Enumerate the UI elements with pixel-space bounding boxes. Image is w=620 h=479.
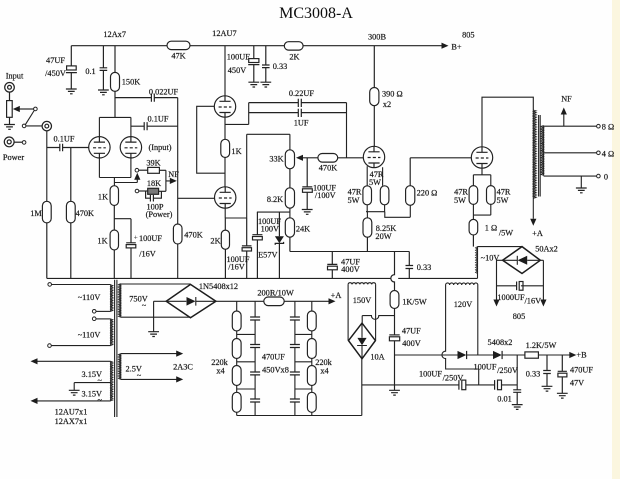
svg-text:(Input): (Input)	[148, 143, 171, 152]
svg-text:0.01: 0.01	[497, 395, 512, 404]
svg-text:0.33: 0.33	[417, 263, 432, 272]
resistor 1K (12AX7 cathode upper)	[110, 186, 118, 230]
svg-text:12AU7x1: 12AU7x1	[55, 408, 88, 417]
svg-text:400V: 400V	[341, 265, 359, 274]
wire SRPP grid bracket	[197, 106, 225, 173]
svg-text:400V: 400V	[402, 339, 420, 348]
resistor 470K (300B grid)	[318, 154, 363, 163]
svg-text:470UF: 470UF	[570, 365, 593, 374]
tube 12AX7 left triode	[89, 137, 110, 158]
connector jack to grid	[42, 121, 51, 130]
wire SRPP cathode chain	[225, 103, 249, 218]
node NF terminal upper	[135, 168, 139, 172]
svg-text:(Power): (Power)	[146, 210, 173, 219]
svg-text:33K: 33K	[269, 155, 283, 164]
wire main ground rail	[47, 277, 478, 279]
svg-text:~: ~	[142, 301, 147, 310]
svg-text:1M: 1M	[30, 209, 42, 218]
svg-text:200R/10W: 200R/10W	[257, 288, 294, 297]
capacitor 0.33 (driver supply)	[262, 46, 270, 82]
node NF terminal lower	[135, 189, 139, 193]
resistor 2K (driver cathode)	[221, 218, 229, 278]
svg-text:MC3008-A: MC3008-A	[279, 5, 353, 22]
svg-text:5W: 5W	[369, 178, 381, 187]
svg-text:NF: NF	[561, 95, 572, 104]
ground (470UF/47V)	[557, 393, 568, 398]
resistor 18K	[139, 188, 166, 194]
connector input jack	[5, 83, 15, 101]
svg-text:/16V: /16V	[228, 263, 245, 272]
winding 120V	[442, 283, 479, 385]
ground (0 tap)	[576, 188, 587, 193]
potentiometer volume	[7, 101, 34, 125]
svg-text:390 Ω: 390 Ω	[382, 90, 403, 99]
capacitor 0.1	[100, 46, 108, 90]
node mains terminal 1	[48, 283, 52, 287]
svg-text:5W: 5W	[454, 196, 466, 205]
svg-text:5W: 5W	[497, 196, 509, 205]
svg-text:5408x2: 5408x2	[488, 338, 513, 347]
svg-text:20W: 20W	[375, 232, 391, 241]
svg-text:18K: 18K	[147, 179, 161, 188]
capacitor 47UF/400V (bias supply)	[389, 335, 399, 390]
capacitor 0.1UF (input coupling)	[47, 144, 89, 152]
wire lower doubler line	[466, 355, 517, 390]
winding 150V	[348, 283, 376, 341]
svg-text:0.33: 0.33	[526, 370, 541, 379]
winding 3.15V heaters	[37, 361, 113, 401]
svg-text:100UF: 100UF	[227, 53, 250, 62]
svg-text:450Vx8: 450Vx8	[262, 365, 289, 374]
ground (0.1)	[98, 90, 109, 95]
svg-text:+B: +B	[576, 351, 587, 360]
transformer PT core	[115, 280, 117, 417]
wire 805 plate to OPT	[482, 97, 533, 147]
resistor 1.2K/5W	[525, 352, 539, 358]
svg-text:470K: 470K	[184, 230, 202, 239]
resistor 47R 5W (805 left)	[469, 186, 478, 205]
wire 12AX7 plate/cathode frame	[99, 117, 130, 185]
wire bridge negative to ground	[154, 301, 167, 331]
svg-text:/250V: /250V	[497, 366, 518, 375]
wire 150V DC+ line with hop	[362, 316, 394, 324]
svg-text:100UF: 100UF	[139, 234, 162, 243]
svg-text:2K: 2K	[289, 53, 299, 62]
tube 12AX7 right triode	[120, 137, 141, 158]
ground (100UF/450V)	[248, 82, 259, 87]
svg-text:/5W: /5W	[499, 229, 513, 238]
resistor 1 ohm /5W	[469, 219, 478, 246]
wire filter columns	[237, 301, 362, 415]
resistor 39K	[139, 167, 166, 173]
svg-text:0.1: 0.1	[85, 67, 95, 76]
wire NF takeoff	[563, 114, 565, 127]
winding ~110V upper	[52, 285, 113, 312]
svg-text:24K: 24K	[296, 225, 310, 234]
svg-text:/16V: /16V	[524, 297, 541, 306]
wire 8 ohm tap	[544, 125, 597, 127]
svg-text:100UF: 100UF	[419, 370, 442, 379]
svg-text:~110V: ~110V	[78, 330, 101, 339]
wire 300B cathode leads	[366, 166, 410, 218]
switch selector	[22, 124, 26, 128]
svg-text:1UF: 1UF	[294, 118, 309, 127]
svg-text:450V: 450V	[228, 66, 246, 75]
winding 750V	[119, 284, 191, 318]
wire B+ rail	[71, 45, 441, 47]
svg-text:2A3C: 2A3C	[173, 363, 193, 372]
svg-text:0.1UF: 0.1UF	[148, 114, 169, 123]
svg-text:0.022UF: 0.022UF	[149, 88, 179, 97]
tube 300B	[363, 146, 384, 167]
resistors 220k x4 (right column)	[307, 311, 316, 412]
winding 2.5V	[119, 354, 178, 380]
capacitor 0.22UF (coupling)	[249, 99, 347, 107]
svg-text:470UF: 470UF	[262, 352, 285, 361]
capacitor 0.33 (bias)	[406, 252, 414, 279]
resistor 24K	[285, 218, 294, 252]
svg-text:1K: 1K	[97, 237, 107, 246]
node wiper terminal	[34, 107, 38, 111]
svg-text:0.1UF: 0.1UF	[54, 134, 75, 143]
svg-text:4 Ω: 4 Ω	[602, 149, 614, 158]
capacitor 47UF/450V	[66, 46, 77, 89]
ground (0.01)	[512, 405, 523, 410]
svg-text:x4: x4	[320, 367, 329, 376]
resistor 470K (grid)	[66, 148, 75, 279]
bridge rectifier 10A	[349, 323, 376, 359]
svg-text:805: 805	[513, 312, 525, 321]
ground (0.33 driver)	[260, 82, 271, 87]
svg-text:8.2K: 8.2K	[267, 195, 283, 204]
svg-text:/450V: /450V	[45, 69, 66, 78]
capacitor 100UF/450V	[248, 46, 259, 82]
transformer OPT core	[539, 115, 541, 197]
capacitor 100UF/250V (first)	[459, 380, 466, 390]
winding ~10V filament	[476, 247, 523, 279]
resistor 470K (driver grid)	[173, 224, 182, 244]
wire 805 grid line	[410, 157, 471, 159]
diode zener E57V	[275, 212, 284, 278]
capacitor 100UF/16V (cathode bypass)	[114, 219, 136, 279]
ground (pot)	[4, 125, 15, 130]
svg-text:E57V: E57V	[258, 250, 277, 259]
svg-text:1K: 1K	[98, 193, 108, 202]
capacitor 100P	[146, 191, 162, 201]
wire SRPP plate to rail	[224, 46, 226, 96]
wire 10A negative to rails	[362, 359, 459, 416]
ground (heater CT)	[69, 390, 80, 395]
svg-text:+A: +A	[532, 229, 543, 238]
svg-text:120V: 120V	[454, 300, 472, 309]
svg-text:1N5408x12: 1N5408x12	[199, 282, 238, 291]
svg-text:~: ~	[98, 376, 103, 385]
resistor 150K	[111, 46, 120, 118]
wire bias doubler line	[395, 354, 571, 356]
svg-text:/16V: /16V	[139, 250, 156, 259]
svg-text:150V: 150V	[353, 296, 371, 305]
svg-text:Power: Power	[3, 153, 24, 162]
ground (100UF/100V 300B)	[302, 210, 313, 215]
wire wiper arrow from 470K	[303, 157, 319, 159]
wire driver cathode junction	[225, 134, 290, 218]
resistors 220k x4 (left column)	[232, 311, 241, 412]
transformer OPT secondary	[541, 126, 544, 176]
svg-text:1K/5W: 1K/5W	[402, 297, 427, 306]
svg-text:100UF: 100UF	[473, 363, 496, 372]
wire 0.022UF output bus down to 470K and grid	[178, 98, 215, 279]
resistor 1K/5W	[390, 252, 399, 335]
capacitor 470UF/47V	[558, 355, 567, 393]
svg-text:0.33: 0.33	[273, 62, 288, 71]
svg-text:50Ax2: 50Ax2	[535, 244, 558, 253]
diode 5408 (first)	[458, 351, 467, 359]
svg-text:805: 805	[462, 31, 474, 40]
resistor 47R 5W (300B right)	[380, 186, 389, 205]
tube 12AU7 upper triode	[214, 96, 235, 117]
svg-text:~110V: ~110V	[78, 293, 101, 302]
svg-text:/250V: /250V	[443, 373, 464, 382]
svg-text:/100V: /100V	[315, 191, 336, 200]
capacitor 1UF (coupling)	[249, 109, 347, 117]
svg-text:1.2K/5W: 1.2K/5W	[526, 341, 557, 350]
svg-text:+: +	[134, 233, 138, 242]
svg-text:Input: Input	[6, 72, 24, 81]
resistor 47K (rail series)	[167, 41, 190, 49]
svg-text:+A: +A	[331, 291, 342, 300]
svg-text:470K: 470K	[319, 164, 337, 173]
resistor 1K (12AX7 cathode lower)	[110, 230, 118, 278]
node B+ arrow	[442, 43, 449, 49]
svg-text:39K: 39K	[146, 158, 160, 167]
svg-text:1000UF: 1000UF	[497, 293, 525, 302]
tube 805	[471, 147, 492, 168]
svg-text:1K: 1K	[231, 147, 241, 156]
svg-text:0: 0	[604, 173, 608, 182]
svg-text:x2: x2	[383, 100, 391, 109]
wire coupling bus to 300B grid	[346, 103, 348, 158]
svg-text:~: ~	[137, 371, 142, 380]
svg-text:47K: 47K	[171, 52, 185, 61]
node +A (OPT return)	[530, 219, 536, 226]
diode 5408 (second)	[493, 351, 502, 359]
svg-text:B+: B+	[451, 43, 462, 52]
svg-text:300B: 300B	[368, 33, 386, 42]
svg-text:12Ax7: 12Ax7	[103, 30, 126, 39]
resistor 2K (rail series)	[284, 42, 303, 50]
resistor 33K (pot)	[285, 150, 294, 188]
wire input node down to 1M	[46, 131, 48, 202]
svg-text:47UF: 47UF	[402, 326, 421, 335]
wire 50A DC output	[497, 260, 544, 300]
wire 8.2K/24K junction	[257, 208, 290, 218]
bridge rectifier 50Ax2	[503, 247, 541, 274]
bridge rectifier 1N5408x12	[166, 284, 216, 317]
svg-text:5W: 5W	[348, 196, 360, 205]
wire NF junction & arrow	[166, 170, 171, 191]
capacitor 0.33 (+B)	[543, 355, 551, 386]
svg-text:220 Ω: 220 Ω	[417, 188, 438, 197]
ground (750V bridge)	[148, 332, 159, 337]
wire bias feed line (24K bottom)	[290, 251, 409, 253]
svg-text:47UF: 47UF	[46, 56, 65, 65]
capacitor 100UF/100V (300B grid)	[302, 158, 312, 210]
capacitor 1000UF/16V	[517, 282, 523, 291]
resistor 47R 5W (300B left)	[363, 186, 372, 205]
svg-text:12AX7x1: 12AX7x1	[55, 417, 88, 426]
resistor 8.2K	[285, 188, 294, 208]
capacitor 100UF/100V (driver)	[252, 212, 262, 278]
svg-text:~: ~	[98, 396, 103, 405]
capacitors 470UF 450Vx8	[250, 317, 300, 402]
ground (bias supply)	[389, 390, 400, 395]
winding ~110V lower	[92, 317, 96, 321]
tube 12AU7 lower triode	[215, 187, 236, 208]
resistor 47R 5W (805 right)	[487, 186, 496, 205]
connector power jack	[4, 137, 22, 147]
svg-text:2K: 2K	[210, 237, 220, 246]
svg-text:100V: 100V	[261, 224, 279, 233]
svg-text:10A: 10A	[370, 352, 384, 361]
resistor 1K (SRPP)	[221, 139, 230, 157]
wire 805 cathode block	[473, 168, 490, 219]
svg-text:0.22UF: 0.22UF	[289, 89, 315, 98]
capacitor 47UF/400V (bias filter)	[327, 252, 337, 279]
capacitor 0.01	[513, 390, 521, 405]
wire NF tap from cathode	[114, 179, 137, 183]
resistor 200R/10W	[264, 297, 284, 306]
ground (0.33 +B)	[542, 386, 553, 391]
svg-text:47V: 47V	[570, 378, 584, 387]
svg-text:470K: 470K	[76, 209, 94, 218]
wire 4 ohm tap	[544, 152, 597, 154]
resistor 390 ohm x2	[370, 46, 379, 147]
ground (47UF/450V)	[66, 89, 77, 94]
svg-text:x4: x4	[216, 367, 225, 376]
capacitor 100UF/16V (driver bypass)	[242, 218, 252, 278]
svg-text:12AU7: 12AU7	[212, 29, 236, 38]
svg-text:8 Ω: 8 Ω	[602, 123, 614, 132]
resistor 1M	[42, 201, 51, 278]
capacitor 0.1UF (plate out)	[131, 122, 178, 130]
svg-text:150K: 150K	[122, 78, 140, 87]
transformer OPT primary	[533, 110, 536, 219]
capacitor 0.022UF	[115, 94, 178, 102]
capacitor 100UF/250V (second)	[495, 380, 502, 390]
svg-text:1 Ω: 1 Ω	[485, 224, 497, 233]
wire +A supply line	[216, 300, 329, 302]
wire 0 tap	[544, 176, 597, 188]
resistor 8.25K 20W	[363, 218, 372, 252]
scan edge tint	[612, 0, 620, 479]
resistor 220 ohm	[406, 158, 415, 206]
